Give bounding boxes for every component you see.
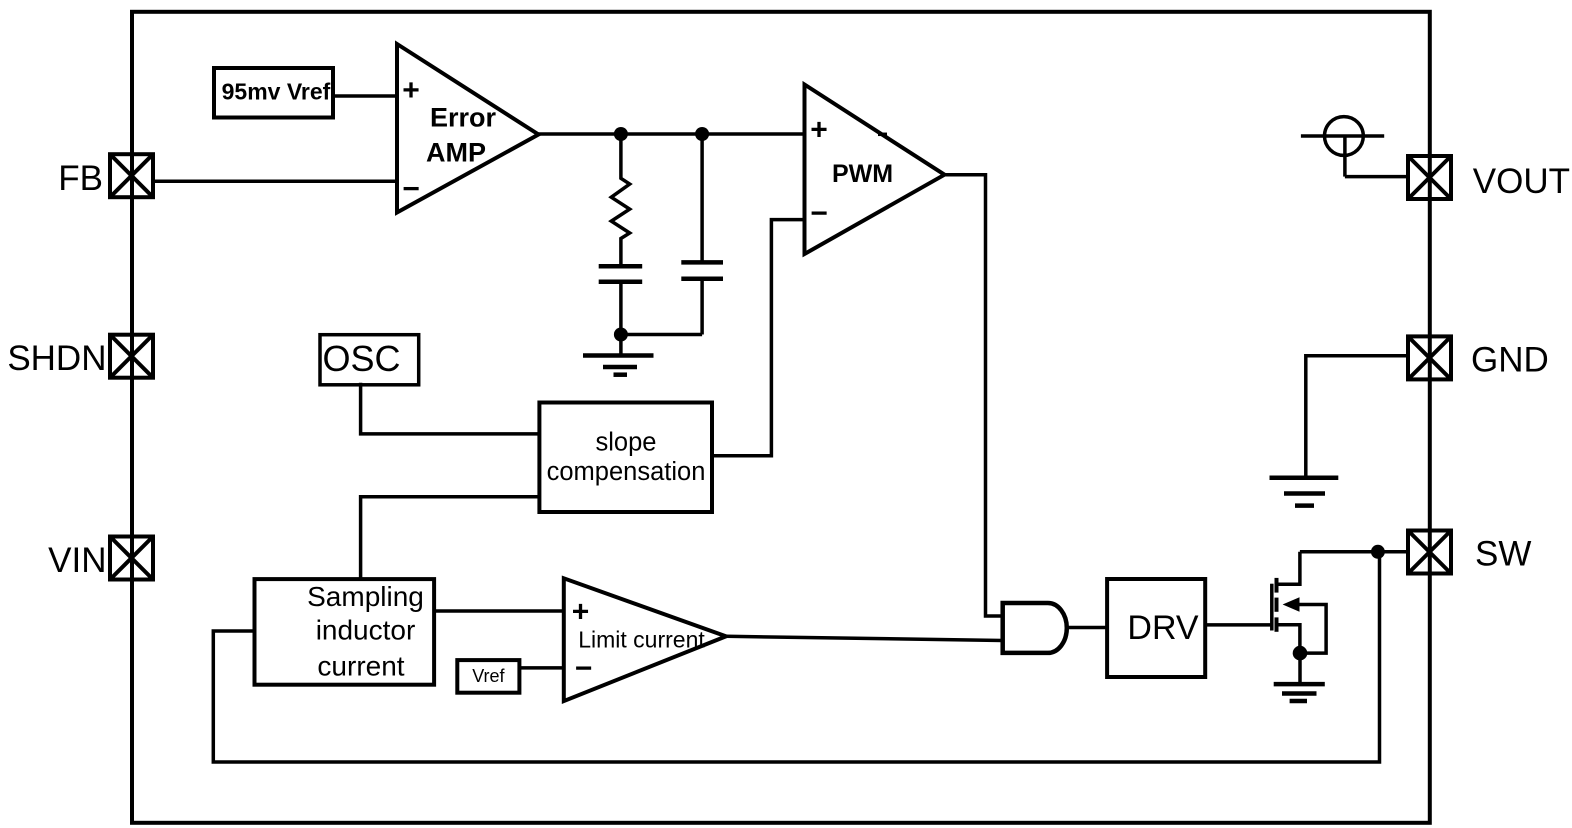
box Sampling inductor current (255, 579, 435, 685)
ground (MOSFET source) (1274, 684, 1325, 701)
resistor R1 (compensation) (611, 134, 629, 266)
svg-text:VOUT: VOUT (1473, 162, 1570, 201)
svg-text:−: − (810, 197, 828, 230)
svg-text:GND: GND (1471, 341, 1549, 380)
capacitor C1 (below resistor) (599, 266, 643, 355)
current sense symbol (VOUT) (1301, 117, 1384, 177)
svg-text:Limit current: Limit current (578, 627, 705, 653)
svg-text:inductor: inductor (316, 615, 416, 646)
svg-text:Vref: Vref (472, 666, 505, 686)
svg-text:PWM: PWM (832, 160, 893, 188)
wire FB pin to Error AMP - input (152, 180, 397, 184)
wire source to ground (1298, 653, 1302, 684)
svg-text:VIN: VIN (48, 541, 106, 580)
svg-text:DRV: DRV (1127, 609, 1198, 647)
svg-text:+: + (810, 114, 828, 147)
svg-text:Sampling: Sampling (307, 581, 424, 612)
svg-text:−: − (402, 173, 420, 206)
wire Sampling box to VIN-side rail and SW bottom rail (213, 552, 1379, 762)
pin SW (1408, 531, 1531, 574)
wire Error AMP output to PWM + input (539, 132, 805, 136)
wire Sampling box to Limit current + input (434, 609, 563, 613)
node E (SW node dot) (1371, 545, 1385, 559)
pin VOUT (1408, 156, 1570, 201)
svg-text:compensation: compensation (547, 458, 706, 486)
svg-text:AMP: AMP (426, 138, 486, 168)
node A (compensation node dot 1) (614, 127, 628, 141)
wire slope compensation to PWM - input (712, 220, 805, 456)
wire PWM output to AND gate input 1 (945, 175, 1003, 616)
svg-text:+: + (402, 74, 420, 107)
wire 95mv Vref box to Error AMP + input (333, 94, 397, 98)
comparator U3 Limit current (564, 578, 726, 701)
comparator U2 PWM (805, 85, 945, 255)
wire AND gate output to DRV (1067, 626, 1107, 630)
op-amp U1 Error AMP (397, 44, 539, 213)
pin SHDN (7, 335, 153, 378)
box Vref (457, 660, 519, 693)
transistor Q1 (NMOS switch) (1272, 552, 1326, 653)
ground (GND pin) (1270, 478, 1339, 506)
svg-text:−: − (575, 652, 593, 685)
AND gate U4 (1003, 603, 1067, 653)
wire sense symbol to VOUT pin (1345, 175, 1409, 179)
pin GND (1408, 336, 1549, 379)
svg-text:current: current (317, 651, 404, 682)
box slope compensation (539, 403, 712, 513)
svg-text:95mv Vref: 95mv Vref (222, 78, 331, 104)
svg-text:+: + (572, 596, 590, 629)
svg-text:OSC: OSC (322, 338, 400, 379)
wire Limit current output to AND gate input 2 (726, 636, 1003, 640)
wire OSC to slope compensation (361, 383, 540, 434)
capacitor C2 (681, 134, 723, 335)
svg-text:SW: SW (1475, 535, 1531, 574)
wire C2 bottom to node C (621, 333, 702, 337)
node C (ground node dot) (614, 328, 628, 342)
wire MOSFET drain to SW pin (1300, 550, 1409, 554)
svg-text:FB: FB (58, 159, 103, 198)
wire DRV to MOSFET gate (1205, 623, 1272, 627)
svg-text:slope: slope (596, 429, 657, 457)
pin FB (58, 154, 153, 198)
svg-text:SHDN: SHDN (7, 339, 106, 378)
wire slope compensation to Sampling inductor current (361, 497, 540, 580)
node D (source node dot) (1293, 646, 1308, 661)
box 95mv Vref (214, 68, 333, 118)
ground (compensation network) (583, 356, 654, 375)
svg-text:Error: Error (430, 103, 497, 133)
node B (compensation node dot 2) (695, 127, 709, 141)
wire GND pin to ground (1306, 356, 1409, 478)
pin VIN (48, 537, 153, 581)
box DRV (1107, 579, 1205, 677)
box OSC (320, 335, 419, 385)
wire Vref box to Limit current - input (519, 666, 563, 670)
